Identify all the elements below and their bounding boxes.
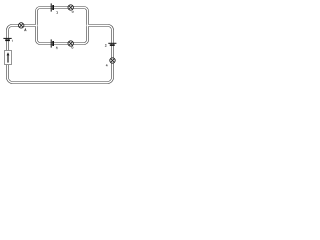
label 4 of cell B4 [56,47,58,50]
label 2 of cell B2 [105,44,106,46]
wire: left split bar at node A [37,8,41,44]
lamp L4 on right wire [106,58,115,67]
wire: upper branch, right merge bar at node B, lower branch [40,8,88,44]
label 3 of cell B3 [56,12,57,14]
lamp L2 on upper branch [68,5,73,13]
label of lamp L1 [25,29,27,31]
battery box GB1 (rectangle with up arrow) on left wire [5,51,12,65]
wire: main loop (feed to node A, left side, bottom, right side, feed from node B) [8,26,113,83]
wire core: main loop [8,26,113,83]
cell B3 on upper branch [51,3,57,13]
label of lamp L4 [106,64,108,66]
lamp L1 on top-left wire [19,23,27,31]
cell B2 on right wire [105,43,116,46]
label of lamp L3 [72,47,74,49]
cell B4 on lower branch [51,39,58,49]
wire core: upper branch, right merge bar at node B, lower branch [40,8,88,44]
lamp L3 on lower branch [68,41,73,49]
cell B1 on left wire [3,38,12,41]
label of lamp L2 [72,11,74,13]
wire core: left split bar at node A [37,8,41,44]
label 1 of cell B1 [11,40,13,42]
